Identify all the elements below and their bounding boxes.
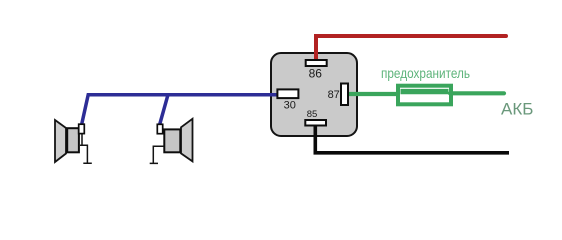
- svg-text:предохранитель: предохранитель: [381, 65, 470, 81]
- horn H1 body: [67, 128, 79, 152]
- horn H2 cone: [181, 119, 193, 162]
- svg-text:87: 87: [328, 89, 340, 101]
- horn H2 terminal: [157, 124, 162, 133]
- relay pin 87: [341, 84, 348, 106]
- wire: black ground from pin 85: [315, 126, 509, 153]
- wire: green from pin 87 to battery: [349, 92, 399, 96]
- fuse F1 (предохранитель): [398, 86, 451, 105]
- wire: blue bus from pin 30 to horns: [82, 95, 278, 124]
- wire: red +12V feed to pin 86: [316, 36, 506, 61]
- fuse element bar: [401, 89, 449, 94]
- horn H2 bracket: [150, 146, 165, 163]
- relay pin 86: [306, 60, 327, 66]
- horn H2 body: [164, 129, 180, 152]
- horn H1 terminal: [79, 124, 85, 133]
- wire: blue branch to right horn: [160, 95, 168, 124]
- svg-text:86: 86: [309, 67, 323, 81]
- svg-text:85: 85: [307, 109, 318, 120]
- horn H1 bracket: [80, 134, 92, 164]
- svg-text:АКБ: АКБ: [501, 100, 533, 119]
- relay pin 30: [277, 89, 298, 98]
- svg-text:30: 30: [284, 99, 296, 111]
- wire: green from fuse to battery: [450, 91, 504, 95]
- relay body K1: [271, 53, 357, 136]
- relay pin 85: [305, 120, 326, 126]
- horn H1 cone: [55, 120, 66, 162]
